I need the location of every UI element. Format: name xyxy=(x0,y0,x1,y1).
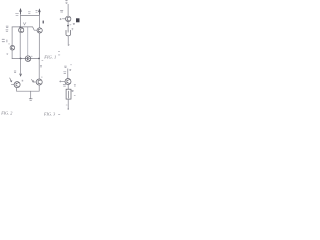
label 32 xyxy=(2,39,7,42)
faint mark right xyxy=(74,94,75,96)
dark block xyxy=(76,18,80,22)
node dot A xyxy=(19,26,21,28)
wire resume xyxy=(67,69,69,79)
label 18 xyxy=(36,11,37,13)
wire left branch horizontal xyxy=(12,26,20,28)
label 42 xyxy=(74,85,75,86)
wire below U1 xyxy=(67,36,69,46)
tick near Q3 top xyxy=(22,79,23,82)
wire mid branch faint xyxy=(27,27,29,56)
arrow up on rail L1 xyxy=(20,9,22,14)
wire top link xyxy=(21,15,40,17)
label 12 xyxy=(43,21,45,24)
wire top lead xyxy=(67,4,69,16)
node dot on bus xyxy=(20,58,22,60)
device c1 on bus xyxy=(25,56,31,62)
arrow up on rail L2 xyxy=(39,10,41,15)
svg-text:FIG. 3: FIG. 3 xyxy=(43,111,55,116)
label 36 xyxy=(64,72,66,74)
wire rail L1 xyxy=(20,9,22,26)
faint mark xyxy=(71,64,72,66)
transistor Q1 xyxy=(19,28,24,33)
svg-text:FIG. 2: FIG. 2 xyxy=(0,110,12,115)
wire R1 left lead xyxy=(62,18,65,20)
hook tick xyxy=(68,44,69,47)
transistor R2 xyxy=(65,79,71,85)
wire bottom rail xyxy=(17,90,40,92)
wire below R1 xyxy=(67,22,69,31)
end blob xyxy=(68,108,69,109)
wire mid bus xyxy=(12,58,39,60)
svg-text:FIG. 1: FIG. 1 xyxy=(43,54,56,59)
ticks right xyxy=(70,70,71,71)
tick near bus corner xyxy=(7,53,8,56)
transistor Q5 xyxy=(10,45,15,50)
ground bar xyxy=(29,98,32,100)
tick near c1 xyxy=(31,55,32,57)
arrow down on left leg xyxy=(20,74,22,76)
faint tick near junction xyxy=(42,60,43,62)
label tail marks xyxy=(58,51,60,55)
transistor Q2 xyxy=(37,28,42,33)
wire Q3 base lead xyxy=(11,83,14,85)
ticks right of U2 xyxy=(72,91,74,92)
tick left xyxy=(66,104,67,106)
wire left leg down xyxy=(20,59,22,76)
lead end cross xyxy=(60,18,62,20)
transistor Q3 xyxy=(14,82,20,88)
label right of U1 xyxy=(72,29,73,30)
wire below Q5 xyxy=(11,50,13,59)
device U1 cup xyxy=(66,30,70,36)
tick right of Q4 collector xyxy=(41,76,42,78)
label 20 xyxy=(14,71,16,73)
arrow into Q3 xyxy=(10,78,12,82)
arrow into Q4 xyxy=(32,79,34,82)
node dot xyxy=(67,25,69,27)
label 30 xyxy=(73,23,75,24)
label 16 xyxy=(28,12,30,14)
wire center tap xyxy=(30,91,32,98)
label 11 xyxy=(24,23,26,25)
transistor Q4 xyxy=(36,79,42,85)
device U2 box xyxy=(66,89,71,99)
wire Q3 emitter down xyxy=(16,88,18,92)
label 38 xyxy=(63,85,65,87)
wire base link xyxy=(20,27,37,30)
wire below R2 xyxy=(67,85,69,90)
label 14 xyxy=(6,26,8,27)
wire Q4 base lead xyxy=(33,81,36,83)
node dot bus right xyxy=(38,58,40,60)
wire below U2 xyxy=(67,99,69,109)
label 10 xyxy=(16,14,19,16)
wire Q4 emitter down xyxy=(38,85,40,91)
lead end cross xyxy=(60,81,61,83)
label ticks right of leg xyxy=(40,66,41,67)
wire Q2 emitter down xyxy=(38,33,40,58)
wire Q1 emitter down xyxy=(19,33,21,58)
transistor R1 xyxy=(66,16,71,21)
label 15 xyxy=(6,30,8,31)
wire R2 left lead xyxy=(61,80,65,82)
wire rail L2 xyxy=(38,10,40,28)
label 26 xyxy=(60,10,63,12)
tick right of dot xyxy=(70,24,71,26)
ground bar 2 xyxy=(30,99,32,101)
label tick xyxy=(9,43,10,45)
wire left branch vertical xyxy=(11,27,13,46)
label glyphs top xyxy=(66,1,68,4)
label 34 xyxy=(65,66,67,68)
tick after FIG 3 xyxy=(58,114,60,116)
wire right leg down xyxy=(38,59,40,80)
